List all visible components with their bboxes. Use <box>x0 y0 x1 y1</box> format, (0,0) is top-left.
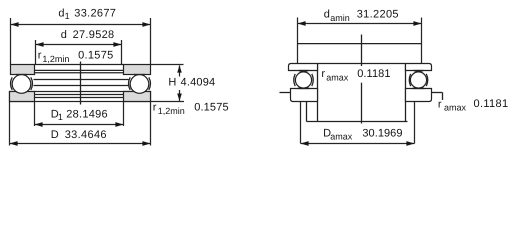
shaft end face line <box>298 43 422 45</box>
ball left (right fig) <box>295 72 311 88</box>
centerline lower segment <box>361 83 363 124</box>
groove notch left top washer <box>299 71 309 72</box>
svg-text:33.4646: 33.4646 <box>65 129 107 141</box>
shaft washer (top) top face line <box>35 64 124 66</box>
ball right (right fig) <box>410 72 426 88</box>
housing washer right cut face <box>124 92 151 102</box>
cage bracket inner right <box>129 77 131 90</box>
svg-text:d: d <box>61 29 67 41</box>
housing seat left edge <box>306 102 308 122</box>
svg-text:r: r <box>153 102 157 114</box>
svg-text:1: 1 <box>65 11 70 21</box>
label D value <box>51 129 107 141</box>
svg-text:d: d <box>58 7 64 19</box>
svg-text:28.1496: 28.1496 <box>66 109 108 121</box>
svg-text:4.4094: 4.4094 <box>181 77 216 89</box>
housing washer groove bump right outline <box>133 90 146 91</box>
housing washer groove bump right <box>133 90 146 91</box>
housing washer mid line 1 <box>35 94 124 96</box>
H arrow down <box>177 90 182 101</box>
label ramax outer right <box>438 98 509 113</box>
svg-text:amax: amax <box>330 132 353 142</box>
housing ledge left <box>280 92 291 94</box>
cage bracket outer left ball <box>294 74 295 86</box>
label r12min right <box>153 102 229 116</box>
shaft body rectangle <box>318 64 406 122</box>
shaft washer right (right fig) <box>406 64 432 71</box>
shaft washer left (right fig) <box>289 64 318 71</box>
shaft washer mid line 1 <box>35 69 124 71</box>
shaft washer right cut face <box>124 65 151 75</box>
label d1 value <box>58 7 116 21</box>
label ramax inner <box>321 68 390 82</box>
svg-text:27.9528: 27.9528 <box>73 29 115 41</box>
svg-text:0.1181: 0.1181 <box>474 98 509 110</box>
shaft washer groove notch right <box>134 75 145 76</box>
housing washer (bottom) body <box>10 92 151 102</box>
cage bracket inner left ball <box>312 74 313 86</box>
housing wall right vertical <box>442 93 444 101</box>
extension line damin right <box>421 18 423 64</box>
housing washer groove bump left outline <box>15 90 28 91</box>
dimension line d1 <box>11 22 151 27</box>
shaft washer groove notch left <box>16 75 27 76</box>
extension line Damax right <box>414 102 416 144</box>
extension line damin left <box>297 18 299 64</box>
svg-text:D: D <box>51 129 59 141</box>
cage bracket inner right ball <box>409 74 410 86</box>
centerline left figure <box>80 62 82 105</box>
svg-text:r: r <box>438 98 442 110</box>
label r12min top <box>38 49 114 63</box>
svg-text:amax: amax <box>444 103 467 113</box>
dimension line damin <box>298 21 422 26</box>
H leader top <box>151 64 184 66</box>
svg-text:d: d <box>324 9 330 21</box>
extension line D1 left <box>34 102 36 126</box>
cage band top line <box>34 79 129 81</box>
housing washer groove bump left <box>15 90 28 91</box>
label H value <box>168 77 215 89</box>
cage band bottom line <box>34 85 129 87</box>
shaft washer mid line 2 <box>35 72 124 74</box>
svg-text:r: r <box>321 68 325 80</box>
H leader bottom <box>151 101 185 103</box>
svg-text:31.2205: 31.2205 <box>357 9 399 21</box>
svg-text:1,2min: 1,2min <box>158 106 185 116</box>
extension line D right <box>150 102 152 146</box>
svg-text:amin: amin <box>330 13 350 23</box>
housing washer left (right fig) <box>291 89 318 102</box>
extension line d1 left <box>10 18 12 65</box>
centerline upper segment <box>361 35 363 67</box>
groove notch right top washer <box>414 71 424 72</box>
housing base line <box>307 121 408 123</box>
dimension line D1 <box>35 122 124 127</box>
svg-text:H: H <box>168 77 176 89</box>
dimension line D <box>10 141 151 146</box>
groove bump left bottom washer <box>298 87 310 88</box>
label D1 value <box>51 109 108 123</box>
extension line Damax left <box>300 102 302 144</box>
groove bump right bottom washer <box>413 87 425 88</box>
extension line D1 right <box>123 102 125 126</box>
svg-text:0.1181: 0.1181 <box>357 68 390 80</box>
cage bracket inner left <box>31 77 33 90</box>
label d value <box>61 29 115 41</box>
housing washer mid line 2 <box>35 97 124 99</box>
dimension line Damax <box>301 141 415 146</box>
housing washer left cut face <box>10 92 35 102</box>
shaft washer left cut face <box>11 65 35 75</box>
extension line d right <box>121 40 123 65</box>
svg-text:0.1575: 0.1575 <box>78 49 113 61</box>
extension line d1 right <box>150 18 152 65</box>
svg-text:0.1575: 0.1575 <box>194 102 229 114</box>
housing washer right (right fig) <box>406 89 432 102</box>
cage bracket outer right <box>149 77 151 90</box>
svg-text:30.1969: 30.1969 <box>362 127 402 139</box>
label Damax value <box>323 127 402 141</box>
ball left <box>12 75 31 94</box>
svg-text:1,2min: 1,2min <box>42 54 69 64</box>
svg-text:amax: amax <box>326 72 349 82</box>
extension line d left <box>35 40 37 65</box>
svg-text:1: 1 <box>58 112 63 122</box>
label damin value <box>324 9 399 23</box>
svg-text:33.2677: 33.2677 <box>74 7 116 19</box>
cage bracket outer left <box>11 77 13 90</box>
svg-text:r: r <box>38 49 42 61</box>
ball right <box>130 75 149 94</box>
dimension line d <box>36 42 122 47</box>
extension line D left <box>9 102 11 146</box>
cage bracket outer right ball <box>426 74 427 86</box>
housing ledge right <box>432 92 443 94</box>
H arrow up <box>177 65 182 76</box>
